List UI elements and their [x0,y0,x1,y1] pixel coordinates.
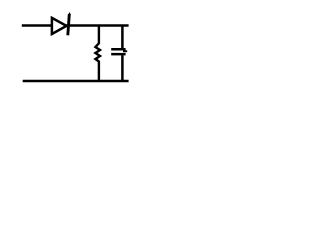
resistor R1 : vertical resistor with leads and zigzag [95,25,100,81]
diode D1 : hollow triangle anode [52,18,67,34]
capacitor C1 lower plate [111,53,125,56]
capacitor C1 bottom lead [121,55,124,81]
capacitor C1 top lead [121,25,124,49]
capacitor C1 gap tick [123,50,127,52]
capacitor C1 upper plate [111,48,125,51]
wire : bottom rail [23,80,129,83]
diode D1 cathode bar : tall tilted bar with pointed top [68,12,71,35]
wire : top rail from anode end to top-right end [22,24,129,27]
